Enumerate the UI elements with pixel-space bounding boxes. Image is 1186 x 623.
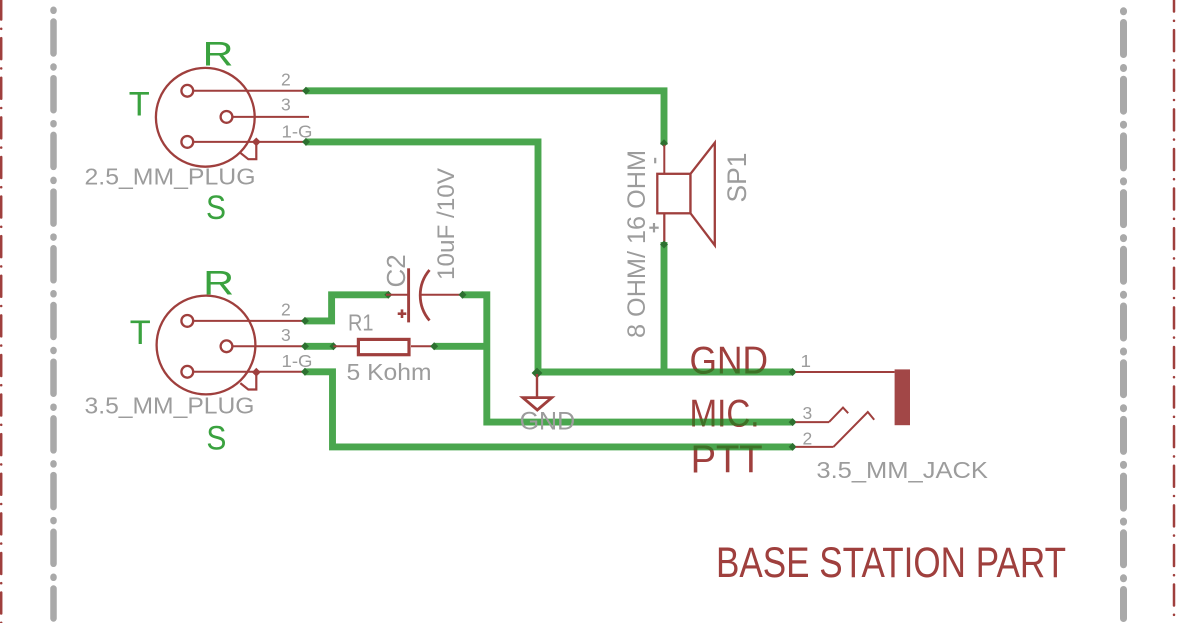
wire net from J2 pin 2 to capacitor C2: [301, 291, 392, 325]
wire net PTT from J2 pin 1-G to jack pin 2: [301, 368, 797, 451]
svg-text:3: 3: [281, 325, 291, 345]
svg-text:GND: GND: [520, 407, 576, 435]
svg-text:R1: R1: [348, 309, 374, 335]
wire net GND from J1 pin 1-G to jack pin 1: [302, 138, 797, 376]
connector J2 3.5_MM_PLUG body: [157, 296, 336, 395]
junction at GND rail and speaker wire: [661, 369, 667, 375]
junction at R1 output and MIC riser: [484, 343, 490, 349]
svg-text:3: 3: [803, 403, 813, 423]
svg-text:5 Kohm: 5 Kohm: [347, 359, 432, 385]
svg-text:10uF /10V: 10uF /10V: [433, 167, 460, 280]
svg-text:2.5_MM_PLUG: 2.5_MM_PLUG: [85, 163, 256, 189]
svg-text:R: R: [203, 265, 234, 303]
resistor R1: [333, 339, 433, 354]
svg-text:R: R: [203, 36, 234, 74]
SP1 pin label plus: [649, 223, 658, 232]
svg-text:3: 3: [281, 95, 291, 115]
wire net from SP1 bottom to GND rail: [660, 213, 668, 372]
svg-text:T: T: [129, 86, 150, 124]
svg-text:C2: C2: [381, 254, 411, 287]
ground symbol GND: [523, 374, 552, 410]
svg-text:2: 2: [281, 70, 291, 90]
wire net MIC from C2 to jack pin 3: [459, 291, 797, 426]
svg-text:S: S: [206, 419, 226, 457]
svg-text:3.5_MM_JACK: 3.5_MM_JACK: [816, 457, 988, 483]
svg-text:2: 2: [803, 429, 813, 449]
svg-text:BASE STATION PART: BASE STATION PART: [716, 540, 1066, 587]
wire net from J2 pin 3 to resistor R1: [301, 342, 337, 350]
svg-text:1-G: 1-G: [282, 121, 313, 141]
svg-text:T: T: [130, 314, 151, 352]
svg-text:MIC.: MIC.: [690, 393, 760, 436]
connector X1 3.5_MM_JACK: [796, 369, 910, 447]
junction at GND symbol attach: [532, 368, 543, 379]
svg-text:3.5_MM_PLUG: 3.5_MM_PLUG: [85, 393, 255, 419]
svg-text:1-G: 1-G: [282, 351, 313, 371]
connector J1 2.5_MM_PLUG body: [156, 68, 309, 167]
svg-text:8 OHM/ 16 OHM: 8 OHM/ 16 OHM: [623, 150, 651, 338]
capacitor C2: [386, 268, 463, 322]
svg-text:2: 2: [281, 300, 291, 320]
wire net from R1 to MIC riser: [430, 342, 487, 350]
SP1 pin label minus: [654, 158, 656, 164]
svg-text:SP1: SP1: [722, 153, 752, 203]
svg-text:1: 1: [801, 351, 812, 371]
speaker SP1: [657, 143, 715, 246]
svg-text:GND: GND: [690, 340, 769, 383]
wire net SPK+ from J1 pin 2 to speaker SP1: [302, 87, 668, 148]
svg-text:S: S: [206, 189, 226, 227]
